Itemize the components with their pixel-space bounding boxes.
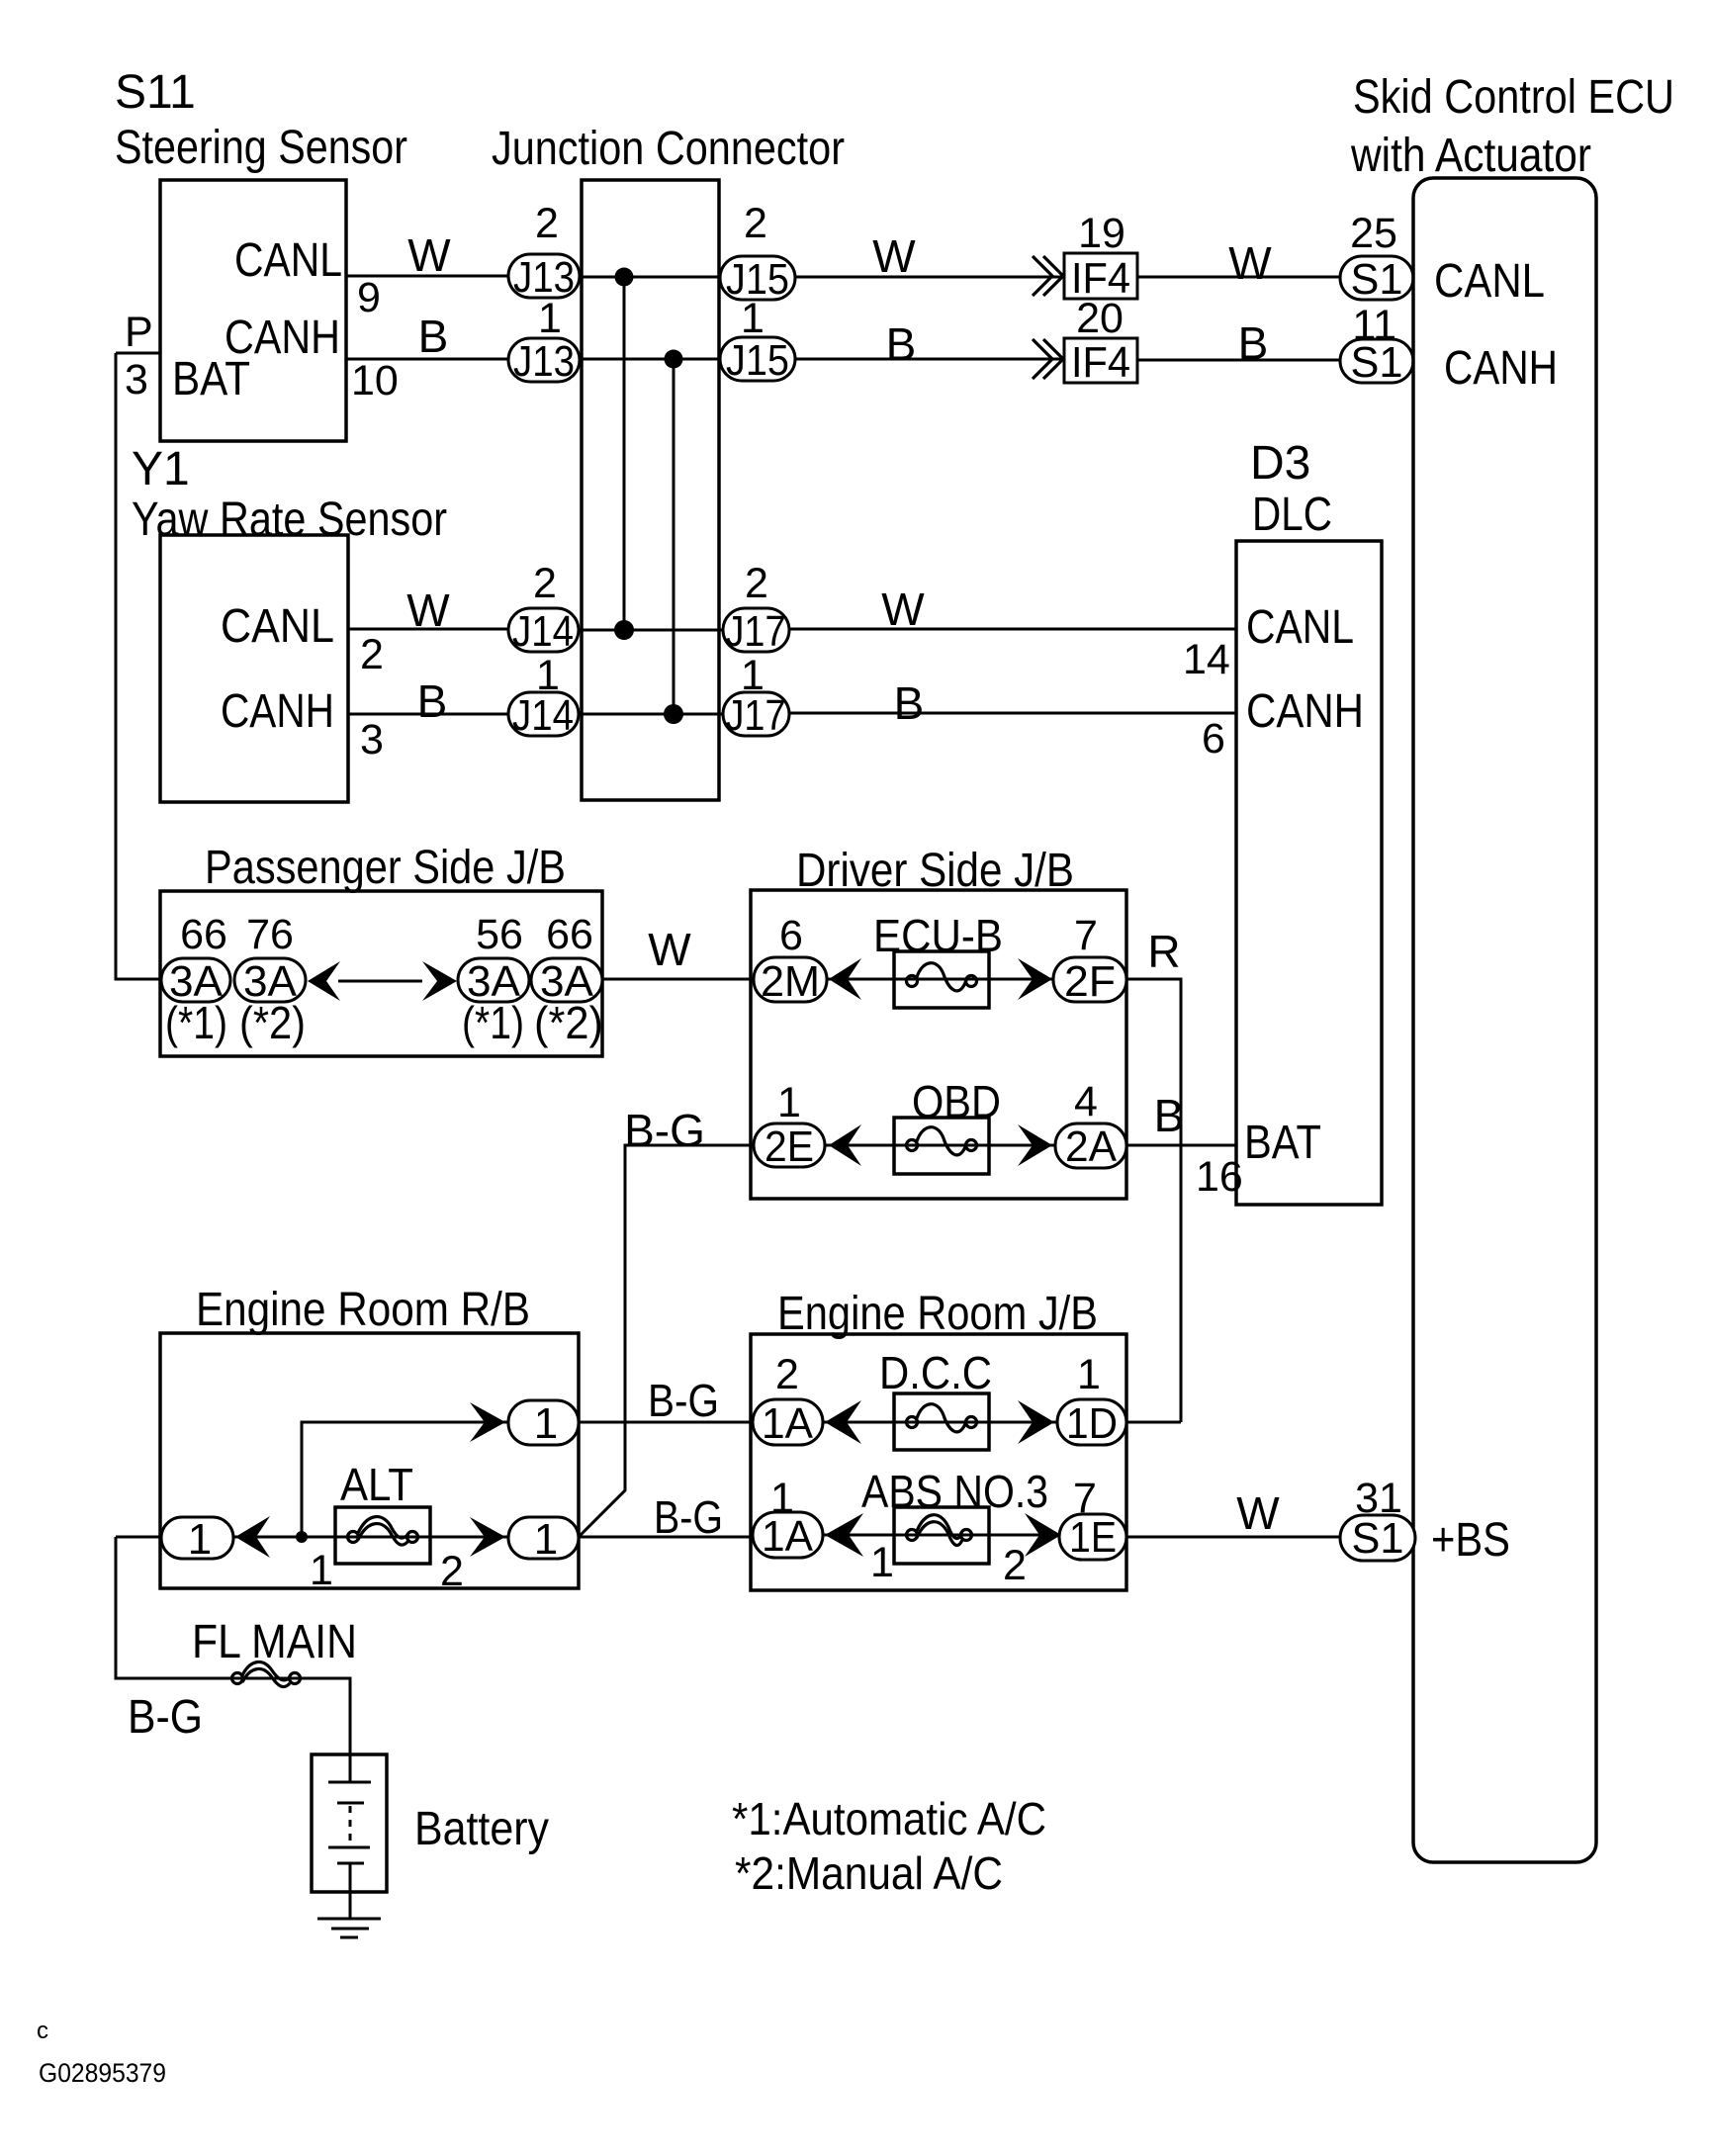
skid control ECU with actuator box <box>1413 178 1596 1862</box>
svg-text:J17: J17 <box>726 607 786 656</box>
svg-text:1: 1 <box>741 295 765 342</box>
svg-text:R: R <box>1147 926 1180 977</box>
svg-text:25: 25 <box>1350 210 1397 257</box>
svg-text:2M: 2M <box>761 957 820 1006</box>
fuse OBD <box>894 1118 989 1174</box>
connector S1 pin 31 <box>1340 1515 1415 1561</box>
svg-text:B: B <box>1238 317 1269 369</box>
wire through OBD fuse row <box>825 1144 1055 1147</box>
svg-text:7: 7 <box>1074 912 1098 959</box>
svg-text:2: 2 <box>744 200 767 247</box>
junction node dot ALT row <box>296 1531 308 1543</box>
svg-text:Steering Sensor: Steering Sensor <box>115 122 407 174</box>
svg-text:B: B <box>894 677 925 729</box>
arrow right ABS row <box>1025 1513 1061 1557</box>
junction node dot row4 <box>664 704 683 724</box>
svg-text:56: 56 <box>476 911 523 958</box>
battery cell plates <box>349 1754 352 1782</box>
wire W IF4 to S1 <box>1137 276 1340 279</box>
svg-text:1: 1 <box>534 1515 558 1564</box>
svg-text:+BS: +BS <box>1431 1514 1510 1567</box>
arrow right ECU-B row <box>1018 958 1052 1000</box>
svg-text:6: 6 <box>779 912 803 959</box>
svg-text:DLC: DLC <box>1252 489 1332 541</box>
wire B-G engine R/B to engine J/B row2 <box>579 1536 753 1539</box>
svg-text:1: 1 <box>310 1547 333 1594</box>
svg-text:1: 1 <box>188 1515 212 1564</box>
wire between arrows passenger <box>338 980 422 983</box>
svg-text:CANL: CANL <box>1434 255 1545 308</box>
svg-text:Skid Control ECU: Skid Control ECU <box>1353 71 1674 124</box>
DLC D3 box <box>1236 541 1382 1205</box>
junction node dot row3 <box>614 620 634 640</box>
svg-text:W: W <box>1228 237 1272 289</box>
connector S1 pin 25 <box>1340 256 1413 300</box>
svg-text:CANH: CANH <box>221 685 334 738</box>
fusible link ALT <box>335 1507 430 1564</box>
arrow left OBD row <box>829 1124 861 1166</box>
connector 1 oval right bottom <box>508 1517 579 1559</box>
svg-text:CANL: CANL <box>234 234 342 287</box>
svg-text:1: 1 <box>536 652 560 699</box>
connector 1E pin 7 <box>1059 1514 1126 1560</box>
arrow right ALT row <box>470 1517 505 1557</box>
arrow right DCC row <box>1018 1400 1054 1444</box>
svg-text:66: 66 <box>180 911 227 958</box>
arrow right passenger <box>422 961 457 1001</box>
svg-text:16: 16 <box>1196 1153 1243 1201</box>
svg-text:3: 3 <box>125 356 148 404</box>
svg-text:B: B <box>1154 1090 1185 1141</box>
connector 2E pin 1 <box>754 1123 825 1167</box>
svg-text:2E: 2E <box>765 1123 814 1171</box>
svg-text:*2:Manual A/C: *2:Manual A/C <box>735 1847 1003 1899</box>
svg-text:D.C.C: D.C.C <box>879 1347 992 1398</box>
junction vertical wire from node B <box>673 359 675 714</box>
svg-text:ABS NO.3: ABS NO.3 <box>861 1466 1048 1517</box>
connector J15 pin 2 <box>720 256 795 300</box>
svg-text:B-G: B-G <box>654 1491 723 1543</box>
svg-text:B: B <box>418 311 449 362</box>
svg-text:CANH: CANH <box>1444 342 1558 395</box>
wire B 2A to DLC BAT <box>1126 1144 1236 1147</box>
svg-text:B: B <box>417 675 448 727</box>
svg-text:(*1): (*1) <box>462 997 524 1048</box>
svg-text:G02895379: G02895379 <box>39 2058 166 2088</box>
arrow left ALT row <box>235 1516 270 1558</box>
connector 2M pin 6 <box>754 957 827 1002</box>
svg-text:1: 1 <box>777 1079 801 1126</box>
svg-text:W: W <box>406 584 450 636</box>
svg-text:with Actuator: with Actuator <box>1350 130 1591 182</box>
wire W passenger to driver 2M <box>602 978 754 981</box>
svg-text:Battery: Battery <box>414 1803 549 1855</box>
svg-text:Yaw Rate Sensor: Yaw Rate Sensor <box>132 494 447 546</box>
connector 1 oval left <box>161 1517 233 1559</box>
wire R 2F to vertical <box>1126 979 1181 1422</box>
svg-text:1A: 1A <box>762 1399 814 1448</box>
junction connector box <box>582 180 719 800</box>
svg-text:J15: J15 <box>726 336 789 385</box>
connector J17 pin 1 <box>723 692 789 736</box>
connector 3A pin 56 <box>458 958 529 1002</box>
connector 1A pin 1 row2 <box>753 1512 823 1558</box>
svg-text:B-G: B-G <box>128 1691 203 1744</box>
svg-text:10: 10 <box>351 357 399 404</box>
svg-text:W: W <box>1236 1487 1280 1539</box>
arrow right OBD row <box>1018 1124 1052 1166</box>
steering sensor BAT pin wire <box>116 352 160 355</box>
svg-text:Passenger Side J/B: Passenger Side J/B <box>205 842 566 894</box>
wire from ALT row down to FL MAIN <box>116 1537 350 1754</box>
svg-text:1: 1 <box>770 1475 794 1522</box>
wire B J17 to DLC CANH <box>789 712 1236 715</box>
fusible link FL MAIN <box>232 1673 243 1684</box>
svg-text:S11: S11 <box>115 66 196 119</box>
svg-text:3: 3 <box>360 716 384 764</box>
svg-text:W: W <box>872 230 916 282</box>
driver side J/B box <box>751 890 1126 1199</box>
wire B J15 to IF4 <box>795 358 1064 361</box>
fusible link ABS NO.3 <box>894 1507 989 1564</box>
fuse D.C.C <box>894 1393 989 1450</box>
fuse ECU-B <box>894 951 989 1008</box>
svg-text:IF4: IF4 <box>1071 338 1130 387</box>
svg-text:P: P <box>125 309 153 356</box>
arrow left passenger <box>308 961 340 1001</box>
svg-text:Junction Connector: Junction Connector <box>492 123 845 175</box>
svg-text:2: 2 <box>440 1548 464 1595</box>
battery box <box>312 1754 387 1892</box>
yaw rate sensor Y1 box <box>160 535 348 802</box>
svg-text:2: 2 <box>1003 1542 1027 1589</box>
wire J13 to J15 row1 <box>580 276 720 279</box>
passenger side J/B box <box>160 891 602 1056</box>
svg-text:Engine Room J/B: Engine Room J/B <box>777 1288 1098 1340</box>
wire through ALT row <box>233 1536 508 1539</box>
wire B S11 CANH to J13 <box>346 358 508 361</box>
connector 1A pin 2 <box>753 1399 823 1445</box>
svg-text:W: W <box>648 924 691 975</box>
junction node dot row2 <box>665 350 683 369</box>
connector 2A pin 4 <box>1055 1123 1126 1168</box>
svg-text:B: B <box>886 318 917 370</box>
svg-text:1: 1 <box>534 1399 558 1448</box>
wire W 1E to S1 <box>1126 1536 1340 1539</box>
wire battery to ground <box>349 1863 352 1919</box>
svg-text:(*2): (*2) <box>239 997 306 1048</box>
svg-text:(*2): (*2) <box>534 997 603 1048</box>
svg-text:CANL: CANL <box>1246 601 1354 654</box>
svg-text:B-G: B-G <box>624 1105 705 1156</box>
svg-text:76: 76 <box>246 911 294 958</box>
connector 3A pin 66 right <box>531 958 602 1002</box>
svg-text:31: 31 <box>1355 1475 1402 1522</box>
junction node dot row1 <box>615 268 634 287</box>
svg-text:14: 14 <box>1183 636 1230 683</box>
svg-text:*1:Automatic A/C: *1:Automatic A/C <box>732 1793 1046 1844</box>
wire B IF4 to S1 <box>1137 359 1340 362</box>
connector 1 oval right top <box>508 1400 579 1445</box>
svg-text:J14: J14 <box>512 607 574 656</box>
svg-text:D3: D3 <box>1250 437 1310 490</box>
svg-text:4: 4 <box>1074 1078 1098 1125</box>
steering sensor S11 box <box>160 180 346 441</box>
wire through ECU-B fuse row <box>827 978 1053 981</box>
svg-text:(*1): (*1) <box>165 997 227 1048</box>
svg-text:1: 1 <box>538 295 562 342</box>
connector J14 pin 1 <box>508 692 579 736</box>
svg-text:66: 66 <box>546 911 593 958</box>
connector J15 pin 1 <box>720 337 795 381</box>
connector J13 pin 2 <box>508 254 580 298</box>
wire BAT vertical to passenger side J/B <box>116 353 161 979</box>
engine room J/B box <box>751 1334 1126 1590</box>
svg-text:ALT: ALT <box>340 1459 413 1510</box>
wire B-G from 2E to engine room R/B <box>579 1145 754 1537</box>
svg-text:CANH: CANH <box>1246 685 1364 738</box>
svg-text:20: 20 <box>1076 295 1124 342</box>
svg-text:2A: 2A <box>1065 1123 1118 1171</box>
connector S1 pin 11 <box>1340 339 1413 383</box>
engine room R/B box <box>160 1333 579 1588</box>
arrow left ABS row <box>825 1513 863 1557</box>
svg-text:1: 1 <box>741 652 765 699</box>
arrow left DCC row <box>825 1400 861 1444</box>
svg-text:S1: S1 <box>1351 255 1403 304</box>
svg-text:11: 11 <box>1352 302 1396 349</box>
svg-text:2: 2 <box>360 631 384 678</box>
wire W J15 to IF4 <box>795 276 1064 279</box>
wire through DCC row <box>823 1421 1057 1424</box>
connector IF4 pin 20 <box>1064 338 1137 383</box>
svg-text:W: W <box>407 229 451 281</box>
splice chevron row1 <box>1033 256 1052 296</box>
connector 3A pin 76 <box>234 958 306 1002</box>
wire B-G engine R/B to engine J/B row1 <box>579 1421 753 1424</box>
svg-text:BAT: BAT <box>172 353 250 405</box>
connector J13 pin 1 <box>508 338 580 382</box>
svg-text:7: 7 <box>1073 1475 1097 1522</box>
arrow right engine R/B row1 <box>470 1402 505 1442</box>
connector IF4 pin 19 <box>1064 253 1137 299</box>
svg-text:BAT: BAT <box>1244 1117 1321 1169</box>
wire W J17 to DLC CANL <box>789 628 1236 631</box>
wire through ABS row <box>823 1534 1059 1537</box>
svg-text:Y1: Y1 <box>132 443 190 495</box>
svg-text:6: 6 <box>1202 715 1225 763</box>
svg-text:19: 19 <box>1078 210 1125 257</box>
wire 1D to R vertical <box>1126 1421 1181 1424</box>
ground symbol <box>317 1918 381 1921</box>
svg-text:CANL: CANL <box>221 600 334 653</box>
wire J14 to J17 row2 <box>579 713 723 716</box>
connector J17 pin 2 <box>723 608 789 652</box>
svg-text:9: 9 <box>357 274 381 321</box>
svg-text:B-G: B-G <box>648 1375 719 1426</box>
svg-text:2: 2 <box>775 1351 799 1398</box>
svg-text:2: 2 <box>745 560 768 607</box>
junction vertical wire from node A <box>623 277 626 630</box>
svg-text:W: W <box>881 584 925 635</box>
wire from left vertical into oval 1 <box>116 1536 161 1539</box>
splice chevron row2 <box>1033 339 1052 379</box>
wire J14 to J17 row1 <box>579 629 723 632</box>
connector 2F pin 7 <box>1053 957 1126 1002</box>
connector J14 pin 2 <box>508 608 579 652</box>
svg-text:2F: 2F <box>1064 957 1116 1006</box>
svg-text:1D: 1D <box>1066 1399 1118 1448</box>
svg-text:2: 2 <box>535 200 559 247</box>
connector 1D pin 1 <box>1057 1399 1126 1445</box>
connector 3A pin 66 <box>161 958 230 1002</box>
wire W S11 CANL to J13 <box>346 275 508 278</box>
svg-text:J13: J13 <box>513 337 575 386</box>
arrow left ECU-B row <box>829 958 861 1000</box>
wire row1 engine R/B <box>302 1422 508 1537</box>
svg-text:FL MAIN: FL MAIN <box>192 1616 357 1668</box>
svg-text:Engine Room R/B: Engine Room R/B <box>196 1284 530 1336</box>
wire W yaw CANL to J14 <box>348 628 508 631</box>
svg-text:c: c <box>37 2018 48 2044</box>
wire B yaw CANH to J14 <box>348 713 508 716</box>
svg-text:1: 1 <box>870 1539 894 1586</box>
svg-text:1: 1 <box>1077 1351 1101 1398</box>
svg-text:2: 2 <box>533 560 557 607</box>
wire J13 to J15 row2 <box>580 358 720 361</box>
